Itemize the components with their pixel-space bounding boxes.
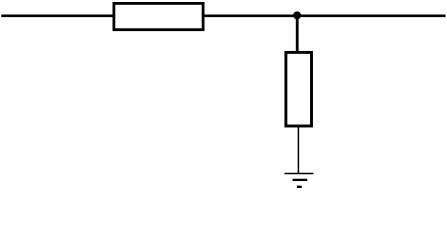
ground (285, 174, 314, 188)
wire (296, 16, 299, 54)
wire (297, 127, 299, 175)
wire (1, 15, 445, 18)
resistor R2 (286, 52, 312, 126)
node A (293, 11, 301, 19)
resistor R1 (114, 3, 203, 29)
